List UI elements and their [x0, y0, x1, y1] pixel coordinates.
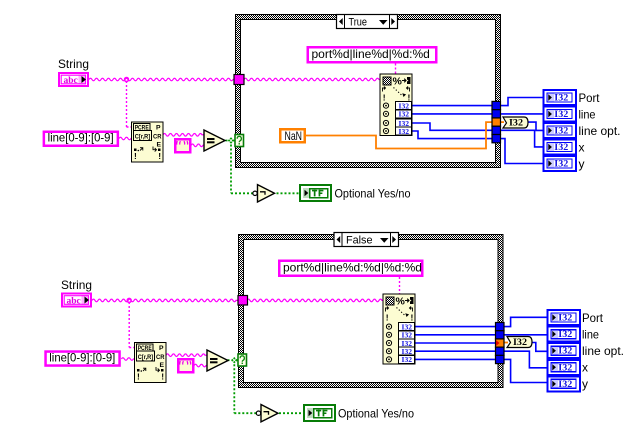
indicator x (bottom): [548, 360, 581, 375]
wire bubble to line opt (top): [528, 122, 544, 130]
wire bubble to line opt (bottom): [532, 343, 548, 352]
svg-text:y: y: [582, 377, 588, 391]
label y (bottom): [582, 377, 588, 391]
label x (bottom): [582, 361, 588, 375]
svg-text:line[0-9]:[0-9]: line[0-9]:[0-9]: [49, 350, 115, 364]
svg-text:x: x: [579, 141, 585, 155]
case selector label False: [334, 233, 399, 247]
wire orange tunnel to bubble (bottom): [504, 342, 508, 344]
svg-text:!: !: [411, 313, 414, 323]
wire scan out1 to tunnel (bottom): [415, 326, 496, 328]
wire empty string to equals (top): [191, 144, 204, 147]
svg-text:Optional Yes/no: Optional Yes/no: [338, 407, 414, 421]
svg-text:y: y: [579, 157, 585, 171]
svg-text:I32: I32: [554, 93, 569, 103]
svg-text:%: %: [393, 76, 403, 88]
wire string branch down to PCRE (bottom): [129, 302, 134, 348]
svg-text:I32: I32: [399, 102, 410, 110]
scan from string node (bottom): [383, 294, 415, 364]
svg-text:I32: I32: [402, 340, 413, 348]
svg-text:!: !: [158, 151, 161, 161]
label x (top): [579, 141, 585, 155]
svg-text:I32: I32: [554, 159, 569, 169]
label Port (bottom): [582, 311, 604, 325]
svg-text:line: line: [579, 108, 596, 122]
input tunnel string (top): [234, 75, 244, 85]
empty string constant (bottom): [177, 358, 195, 374]
wire scan out1 to tunnel (top): [412, 105, 493, 107]
label Optional Yes/no (top): [335, 187, 411, 201]
string constant port format (bottom): [278, 260, 424, 278]
wire tunnel to x (top): [501, 130, 544, 147]
indicator line opt (top): [544, 123, 577, 138]
wire regex const to PCRE (bottom): [121, 358, 134, 361]
svg-text:I32: I32: [558, 379, 573, 389]
wire tunnel to x (bottom): [504, 351, 548, 368]
svg-text:I32: I32: [558, 329, 573, 339]
svg-text:P: P: [159, 345, 164, 352]
indicator y (top): [544, 156, 577, 171]
svg-text:E: E: [157, 142, 162, 149]
wire tunnel to scan node (bottom): [247, 299, 383, 302]
indicator Port (bottom): [548, 310, 581, 325]
wire Not to TF (bottom): [279, 412, 304, 414]
wire string control to tunnel (top): [89, 78, 234, 81]
svg-text:I32: I32: [399, 128, 410, 136]
svg-text:I32: I32: [558, 362, 573, 372]
match regular expression PCRE (top): [132, 122, 164, 162]
wire regex const to PCRE (top): [119, 137, 132, 140]
wire tunnel to y (bottom): [504, 359, 548, 382]
string control String (top): [58, 72, 89, 87]
label line (bottom): [582, 328, 599, 342]
svg-text:CR: CR: [153, 134, 162, 141]
svg-text:CR: CR: [156, 354, 165, 361]
label line opt (bottom): [582, 344, 624, 358]
wire scan out2 to tunnel (top): [412, 113, 493, 115]
svg-text:I32: I32: [402, 348, 413, 356]
svg-text:C[r,R]: C[r,R]: [135, 133, 151, 140]
wire junction dot (bottom): [127, 298, 131, 302]
svg-text:!: !: [383, 93, 386, 103]
svg-text:!: !: [134, 151, 137, 161]
NaN constant (top): [279, 128, 306, 144]
wire scan out3 to orange tunnel (bottom): [415, 342, 496, 344]
coercion bubble I32 (top): [503, 117, 528, 129]
indicator x (top): [544, 140, 577, 155]
svg-text:!: !: [408, 93, 411, 103]
svg-text:port%d|line%d|%d:%d: port%d|line%d|%d:%d: [312, 47, 430, 61]
wire orange tunnel to bubble (top): [501, 121, 505, 123]
indicator y (bottom): [548, 376, 581, 391]
wire equals to case selector (top): [226, 140, 236, 142]
wire tunnel to line (top): [501, 113, 544, 115]
svg-text:port%d|line%d:%d|%d:%d: port%d|line%d:%d|%d:%d: [283, 261, 422, 275]
label String (bottom): [61, 278, 92, 292]
svg-text:Optional Yes/no: Optional Yes/no: [335, 187, 411, 201]
label y (top): [579, 157, 585, 171]
wire PCRE to equals (top): [163, 134, 204, 137]
wire PCRE to equals (bottom): [166, 354, 207, 357]
indicator line (top): [544, 107, 577, 122]
input tunnel string (bottom): [238, 296, 248, 306]
label Optional Yes/no (bottom): [338, 407, 414, 421]
svg-text:abc: abc: [67, 296, 81, 306]
svg-text:I32: I32: [554, 109, 569, 119]
svg-text:I32: I32: [554, 126, 569, 136]
wire tunnel to y (top): [501, 139, 544, 164]
svg-text:Port: Port: [579, 91, 601, 105]
string constant line[0-9]:[0-9] (bottom): [44, 350, 121, 367]
match regular expression PCRE (bottom): [135, 343, 167, 383]
wire tunnel to line (bottom): [504, 334, 548, 336]
wire tunnel to scan node (top): [244, 78, 380, 81]
svg-text:!: !: [386, 313, 389, 323]
boolean indicator Optional Yes/no (top): [300, 185, 331, 201]
wire scan out4 to tunnel (top): [412, 131, 493, 139]
svg-text:P: P: [156, 125, 161, 132]
label String (top): [58, 57, 89, 71]
wire equals to case selector (bottom): [228, 359, 239, 361]
wire scan out3 to tunnel (top): [412, 123, 493, 130]
case selector label True: [337, 15, 398, 29]
svg-text:!: !: [137, 372, 140, 382]
string constant port format (top): [307, 46, 438, 64]
wire junction dot (top): [125, 78, 129, 82]
string constant line[0-9]:[0-9] (top): [43, 131, 120, 148]
svg-text:I32: I32: [513, 338, 527, 348]
svg-text:I32: I32: [402, 356, 413, 364]
svg-text:Port: Port: [582, 311, 604, 325]
case structure False border: [238, 234, 504, 388]
svg-text:I32: I32: [402, 332, 413, 340]
svg-text:I32: I32: [558, 313, 573, 323]
indicator line opt (bottom): [548, 343, 581, 358]
svg-text:line[0-9]:[0-9]: line[0-9]:[0-9]: [48, 131, 114, 145]
wire format const to scan node (top): [395, 64, 397, 75]
boolean junction (top): [228, 137, 234, 143]
wire empty string to equals (bottom): [194, 364, 207, 367]
empty string constant (top): [174, 138, 192, 154]
not node (bottom): [256, 405, 278, 422]
label Port (top): [579, 91, 601, 105]
svg-text:x: x: [582, 361, 588, 375]
label line (top): [579, 108, 596, 122]
wire scan out5 to tunnel (bottom): [415, 358, 496, 360]
wire string control to tunnel (bottom): [92, 299, 238, 302]
boolean junction (bottom): [231, 357, 237, 363]
svg-text:String: String: [58, 57, 89, 71]
wire scan out2 to tunnel (bottom): [415, 334, 496, 336]
svg-text:C[r,R]: C[r,R]: [138, 354, 154, 361]
scan from string node (top): [380, 74, 412, 136]
svg-text:String: String: [61, 278, 92, 292]
case selector tunnel ? (bottom): [238, 354, 247, 366]
indicator Port (top): [544, 90, 577, 105]
wire scan out4 to tunnel (bottom): [415, 350, 496, 352]
svg-text:I32: I32: [554, 142, 569, 152]
not node (top): [253, 185, 275, 202]
wire format const to scan node (bottom): [399, 277, 401, 294]
wire Not to TF (top): [277, 192, 301, 194]
wire tunnel to Port (top): [501, 98, 544, 106]
wire branch down to Not (bottom): [234, 360, 256, 413]
svg-text:False: False: [346, 235, 373, 247]
svg-text:I32: I32: [399, 111, 410, 119]
wire branch down to Not (top): [231, 141, 253, 194]
case selector tunnel ? (top): [235, 135, 244, 147]
output tunnel stack (bottom): [496, 323, 505, 364]
svg-text:NaN: NaN: [285, 129, 303, 143]
string control String (bottom): [61, 293, 92, 308]
svg-text:line: line: [582, 328, 599, 342]
svg-text:line opt.: line opt.: [579, 124, 621, 138]
svg-text:E: E: [160, 362, 165, 369]
svg-text:I32: I32: [558, 346, 573, 356]
svg-text:True: True: [349, 17, 368, 29]
svg-text:I32: I32: [402, 323, 413, 331]
wire NaN to orange tunnel (top): [306, 122, 492, 148]
svg-text:abc: abc: [64, 76, 78, 86]
label line opt (top): [579, 124, 621, 138]
output tunnel stack (top): [492, 101, 501, 142]
boolean indicator Optional Yes/no (bottom): [304, 405, 335, 421]
case structure True border: [235, 14, 501, 168]
wire string branch down to PCRE (top): [127, 81, 132, 127]
svg-text:%: %: [396, 296, 406, 308]
equal? node (bottom): [207, 350, 228, 371]
equal? node (top): [204, 130, 225, 151]
svg-text:I32: I32: [509, 119, 523, 129]
wire tunnel to Port (bottom): [504, 317, 548, 326]
coercion bubble I32 (bottom): [507, 337, 532, 349]
svg-text:!: !: [161, 372, 164, 382]
svg-text:line opt.: line opt.: [582, 344, 624, 358]
indicator line (bottom): [548, 327, 581, 342]
